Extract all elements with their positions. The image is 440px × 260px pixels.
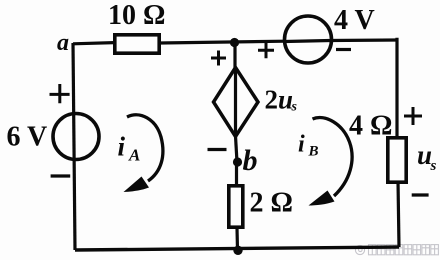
minus sign of 6V source [51, 174, 71, 177]
svg-text:s: s [291, 100, 298, 115]
node b dot [233, 157, 242, 166]
minus sign of dependent source [208, 148, 227, 151]
svg-text:B: B [308, 144, 319, 160]
svg-text:a: a [57, 30, 69, 56]
wire junction to diamond [233, 42, 236, 68]
arrowhead iA [124, 177, 150, 193]
line through diamond [234, 68, 237, 137]
svg-text:s: s [430, 158, 437, 174]
plus sign of 4V source [258, 42, 274, 58]
wire right vertical lower [398, 181, 399, 247]
resistor R2 4Ω [388, 138, 406, 182]
svg-text:4 V: 4 V [334, 5, 375, 36]
minus sign of us [412, 193, 429, 196]
mesh current iB arrow [313, 118, 353, 196]
left wire [73, 43, 75, 250]
watermark [355, 245, 438, 255]
svg-text:6 V: 6 V [7, 122, 48, 153]
voltage source U1 4V [285, 16, 332, 63]
wire resistor to bottom [235, 228, 239, 250]
bottom wire [75, 247, 399, 250]
dependent source 2us diamond [214, 68, 259, 137]
svg-text:i: i [118, 132, 126, 162]
svg-text:b: b [243, 144, 258, 177]
svg-text:A: A [128, 146, 140, 165]
resistor R3 2Ω [229, 186, 243, 227]
svg-text:2 Ω: 2 Ω [250, 188, 293, 219]
wire node b to resistor [235, 162, 238, 185]
arrowhead iB [309, 191, 335, 206]
svg-text:2u: 2u [265, 85, 294, 115]
svg-text:10 Ω: 10 Ω [108, 0, 165, 31]
resistor R1 10Ω [115, 35, 159, 53]
wire right vertical upper [395, 38, 398, 138]
wire top-middle [160, 41, 285, 43]
minus sign of 4V source [336, 48, 351, 51]
wire top-left segment [73, 43, 114, 44]
mesh current iA arrow [127, 115, 163, 181]
plus sign of 6V source [50, 84, 70, 103]
node junction dot top [230, 38, 239, 47]
plus sign of us [404, 107, 422, 125]
plus sign of dependent source [211, 51, 226, 66]
svg-text:4 Ω: 4 Ω [349, 111, 392, 142]
voltage source U2 6V [53, 114, 99, 160]
wire diamond to node b [236, 136, 238, 162]
wire through 4V source [285, 41, 330, 42]
wire top-right segment [330, 38, 397, 42]
svg-text:i: i [298, 132, 305, 158]
node junction dot bottom [233, 246, 242, 255]
